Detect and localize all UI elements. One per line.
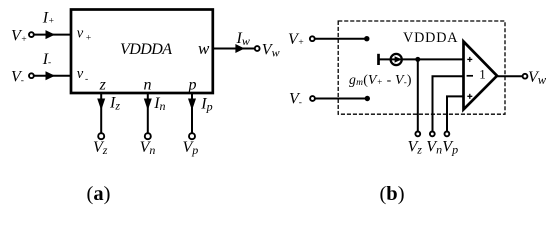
node dot V+ end bbox=[364, 36, 369, 41]
svg-text:VDDDA: VDDDA bbox=[403, 30, 458, 46]
current arrow Iw bbox=[235, 44, 244, 53]
wire w output bbox=[497, 75, 522, 77]
current arrow Ip bbox=[188, 99, 196, 111]
wire p input bbox=[447, 96, 464, 131]
current arrow Iz bbox=[97, 99, 105, 111]
current arrow In bbox=[144, 99, 152, 111]
op-amp U2 triangle bbox=[464, 42, 498, 110]
svg-text:w: w bbox=[198, 39, 210, 58]
svg-text:p: p bbox=[188, 77, 197, 94]
node dot V- end bbox=[365, 96, 370, 101]
wire current source to op-amp bbox=[379, 58, 464, 60]
wire n input bbox=[433, 76, 464, 131]
current arrow I- bbox=[46, 71, 56, 80]
svg-text:VDDDA: VDDDA bbox=[120, 41, 172, 58]
terminal V+ bbox=[310, 36, 315, 41]
current source G1 circle bbox=[391, 54, 402, 65]
op-amp + input bottom bbox=[467, 94, 472, 99]
terminal V- bbox=[310, 96, 315, 101]
wire n pin down bbox=[147, 93, 149, 133]
block U1 (VDDDA) bbox=[71, 10, 213, 94]
current source G1 arrow bbox=[395, 56, 402, 62]
terminal Vw bbox=[523, 74, 528, 79]
wire V- stub bbox=[315, 98, 367, 100]
terminal Vw bbox=[255, 46, 260, 51]
terminal Vp bbox=[189, 133, 195, 139]
terminal Vn bbox=[430, 132, 435, 137]
wire p pin down bbox=[191, 93, 193, 133]
terminal Vp bbox=[445, 132, 450, 137]
node z junction bbox=[415, 57, 420, 62]
svg-text:(b): (b) bbox=[379, 183, 404, 205]
terminal Vz bbox=[98, 133, 104, 139]
wire z down bbox=[417, 59, 419, 131]
terminal Vn bbox=[145, 133, 151, 139]
svg-text:(a): (a) bbox=[87, 183, 111, 205]
current arrow I+ bbox=[46, 30, 56, 39]
wire z pin down bbox=[100, 93, 102, 133]
wire V+ stub bbox=[315, 38, 367, 40]
wire w output bbox=[213, 48, 254, 50]
terminal V- bbox=[29, 73, 34, 78]
wire V- to v- bbox=[34, 75, 71, 77]
svg-text:z: z bbox=[99, 77, 107, 94]
svg-text:1: 1 bbox=[479, 66, 486, 81]
svg-text:n: n bbox=[144, 77, 152, 94]
wire V+ to v+ bbox=[34, 34, 71, 36]
op-amp + input top bbox=[467, 57, 472, 62]
op-amp - input middle bbox=[467, 75, 473, 77]
terminal Vz bbox=[415, 132, 420, 137]
current source G1 reference bar bbox=[377, 54, 380, 65]
terminal V+ bbox=[29, 32, 34, 37]
dashed boundary box bbox=[338, 21, 505, 114]
